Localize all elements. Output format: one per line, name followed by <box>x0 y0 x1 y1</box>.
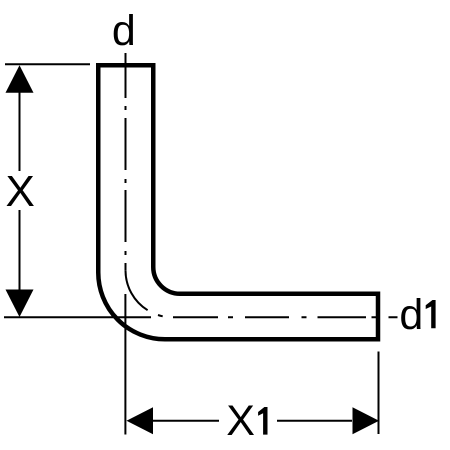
label X1 digit 1 <box>258 407 267 435</box>
X1 left extension line <box>124 294 126 435</box>
svg-text:d: d <box>399 291 423 339</box>
X top extension line <box>5 63 90 65</box>
X bottom extension line <box>4 316 151 318</box>
centerline bend arc dot <box>158 315 163 316</box>
pipe top end cap <box>96 63 156 68</box>
pipe bend body <box>96 65 378 341</box>
X1 arrow left <box>127 407 154 434</box>
label d1 digit 1 <box>426 300 436 328</box>
dimension X <box>4 64 151 317</box>
X arrow down <box>6 290 34 318</box>
svg-text:d: d <box>112 7 136 55</box>
svg-text:X: X <box>226 397 255 445</box>
vertical centerline segments <box>125 53 127 270</box>
X1 right extension line <box>378 352 380 435</box>
X dimension shaft lower <box>19 210 21 291</box>
dimension X1 <box>125 294 378 435</box>
X dimension shaft upper <box>19 92 21 171</box>
horizontal centerline segments <box>173 316 398 318</box>
pipe inner wall (right wall, inner bend arc, top wall) <box>153 65 378 294</box>
pipe outer wall (left wall, outer bend arc, bottom wall) <box>98 65 378 339</box>
pipe right end cap <box>376 292 381 342</box>
svg-text:X: X <box>6 167 35 216</box>
X1 arrow right <box>353 407 380 434</box>
X1 dimension shaft left <box>153 420 219 422</box>
X arrow up <box>6 65 34 93</box>
X1 dimension shaft right <box>277 420 352 422</box>
centerline (dash-dot) <box>125 53 397 317</box>
centerline bend arc solid part <box>125 270 147 310</box>
